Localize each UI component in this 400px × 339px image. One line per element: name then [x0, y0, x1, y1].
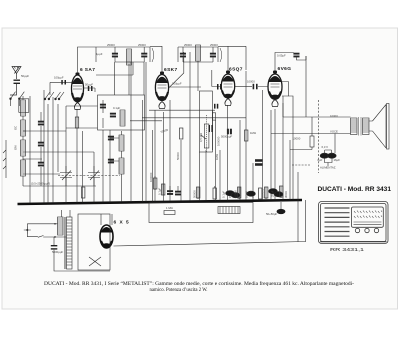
svg-text:5000μμF: 5000μμF — [52, 250, 63, 254]
svg-text:10000: 10000 — [293, 137, 301, 141]
svg-text:25000: 25000 — [210, 43, 218, 47]
svg-text:6V6G: 6V6G — [278, 66, 292, 72]
svg-text:1 MΩ: 1 MΩ — [166, 206, 173, 210]
svg-text:100μμF: 100μμF — [172, 82, 182, 86]
svg-text:10000: 10000 — [234, 190, 238, 198]
svg-text:OM: OM — [14, 145, 18, 150]
svg-text:namico. Potenza d’uscita 2 W.: namico. Potenza d’uscita 2 W. — [150, 288, 208, 293]
svg-text:1MΩ: 1MΩ — [215, 154, 219, 160]
svg-text:50000: 50000 — [176, 152, 180, 160]
svg-text:DUCATI - Mod. RR 3431, I Serie: DUCATI - Mod. RR 3431, I Serie “METALIST… — [44, 281, 354, 287]
svg-text:5000μμF: 5000μμF — [221, 135, 232, 139]
svg-text:VOCE: VOCE — [330, 129, 338, 133]
svg-text:25000: 25000 — [107, 43, 115, 47]
svg-text:1μμF: 1μμF — [96, 52, 103, 56]
svg-text:16μF: 16μF — [334, 158, 341, 162]
svg-text:25000: 25000 — [184, 43, 192, 47]
svg-text:100000: 100000 — [149, 172, 153, 182]
svg-text:25μF: 25μF — [271, 190, 275, 197]
svg-text:OC: OC — [14, 126, 18, 130]
svg-text:0,5 MΩ: 0,5 MΩ — [199, 133, 203, 142]
svg-text:ALIMENTAZ.: ALIMENTAZ. — [320, 166, 336, 170]
svg-text:10000: 10000 — [330, 114, 338, 118]
svg-text:0.1μF: 0.1μF — [158, 188, 162, 195]
svg-text:1MΩ: 1MΩ — [250, 131, 256, 135]
svg-text:6 X 5: 6 X 5 — [114, 220, 130, 226]
svg-text:25000: 25000 — [138, 43, 146, 47]
svg-text:100000: 100000 — [261, 188, 265, 198]
svg-text:8μF: 8μF — [318, 158, 323, 162]
svg-text:(0,5÷2500 μμF): (0,5÷2500 μμF) — [31, 182, 50, 186]
svg-text:10000: 10000 — [247, 80, 255, 84]
svg-text:0.05μF: 0.05μF — [277, 54, 286, 58]
svg-text:0.1μF: 0.1μF — [222, 191, 226, 198]
svg-text:6 SA7: 6 SA7 — [80, 67, 95, 73]
svg-text:50μμF: 50μμF — [21, 74, 29, 78]
svg-text:6SK7: 6SK7 — [164, 67, 178, 73]
svg-text:6SQ7: 6SQ7 — [229, 67, 243, 73]
svg-text:50+50μF: 50+50μF — [266, 212, 277, 216]
svg-text:100μμF: 100μμF — [54, 76, 64, 80]
svg-text:DUCATI - Mod. RR 3431: DUCATI - Mod. RR 3431 — [318, 187, 392, 193]
svg-text:100000: 100000 — [217, 136, 221, 146]
svg-text:50000: 50000 — [193, 190, 197, 198]
svg-text:0.1μF: 0.1μF — [113, 106, 120, 110]
svg-text:50μμF: 50μμF — [85, 83, 93, 87]
svg-text:RR 3431,1: RR 3431,1 — [330, 247, 364, 253]
svg-text:6,3 V: 6,3 V — [322, 145, 329, 149]
svg-text:10 μF: 10 μF — [245, 191, 249, 198]
svg-text:300Ω: 300Ω — [284, 191, 288, 198]
